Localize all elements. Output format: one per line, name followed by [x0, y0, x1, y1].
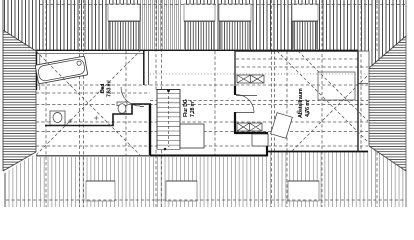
wall top outer [36, 49, 358, 51]
dashed vertical x274.5 [274, 51, 276, 151]
dash-dot axis line y74 [150, 73, 368, 75]
fest wall east [357, 52, 359, 152]
WC [50, 111, 65, 125]
dashed line y93 [36, 92, 150, 94]
roof plane west hip (left horizontal hatch) [3, 30, 36, 171]
dashed vertical x322 [321, 0, 323, 207]
bath door arc [121, 87, 140, 106]
small rect below knee wall [252, 134, 268, 146]
dashed vertical x156 bottom [155, 150, 157, 207]
floor edge right (abseite) [368, 51, 370, 146]
dashed vertical x361 [360, 0, 362, 151]
walking line start dot [167, 89, 170, 92]
hip line bottom-left [3, 152, 36, 171]
svg-text:Bad: Bad [100, 84, 106, 93]
dashed line y100.5 [150, 100, 368, 102]
fest door leaf [236, 112, 254, 114]
svg-text:7,63 m²: 7,63 m² [107, 80, 113, 97]
dashed hip X right arm1a [298, 51, 368, 121]
stair treads [157, 93, 180, 149]
label Abstellraum [298, 88, 311, 118]
eave edge left [2, 0, 4, 171]
wall fest west lower [234, 112, 236, 133]
wall bath right [143, 50, 145, 85]
dashed hip X left arm2 [36, 51, 140, 155]
dashed vertical x79.5 [79, 0, 81, 207]
ledge line top right [358, 50, 369, 52]
dashed line y67 [236, 66, 368, 68]
stair newel dot [164, 148, 167, 151]
stair [157, 89, 181, 150]
dashed vertical x271.5 [271, 0, 273, 207]
roof plane south (bottom vertical hatch band) [5, 147, 406, 208]
stairwell dense hatch strip [141, 0, 181, 50]
dashed ridge line y104.5 [36, 104, 368, 106]
dashed vertical x83.5 [83, 0, 85, 207]
hip line bottom-right [369, 146, 406, 171]
skylight R4 [292, 4, 318, 49]
crossed box row1 [237, 75, 264, 83]
dashed hip X right arm1b [277, 51, 368, 142]
skylight R3 [219, 4, 251, 49]
skylight B2 [166, 181, 197, 201]
skylight B1 [86, 181, 115, 201]
dashed vertical x287 [286, 51, 288, 207]
fest door lintel line [236, 95, 257, 97]
dashed line y85 [36, 84, 368, 86]
landing rect [180, 124, 204, 148]
knee wall stepped (bath south) [45, 104, 151, 126]
roof plane north (top vertical hatch band) [3, 0, 406, 68]
eave edge bottom-left [4, 173, 6, 207]
roof shaft hatch under skylight R2 [183, 20, 215, 50]
floor edge left [35, 51, 37, 152]
purlin line right [358, 83, 368, 85]
dashed vertical x377 [376, 0, 378, 207]
dashed vertical x126 [125, 51, 127, 155]
hip line top-right [369, 36, 406, 68]
dashed hip X left arm1 [36, 51, 140, 155]
stair walking line [168, 91, 170, 147]
skylight R1 [108, 4, 140, 49]
roof shaft hatch under skylight R3 [219, 20, 251, 50]
skylight B3 [288, 181, 319, 201]
svg-text:4,76 m²: 4,76 m² [304, 99, 311, 117]
svg-text:Flur DG: Flur DG [183, 99, 189, 117]
tilted furniture [271, 113, 293, 139]
label Bad [100, 80, 113, 97]
dashed vertical x161.5 bottom [161, 150, 163, 207]
roof shaft hatch under skylight R1 [108, 20, 140, 50]
dashed eave line top [40, 4, 406, 6]
dashed vertical x215 [214, 51, 216, 155]
wall top inner line bath [36, 53, 144, 55]
dashed line y146 [36, 145, 368, 147]
roof plane east hip (right horizontal hatch) [369, 36, 406, 171]
wall step bottom middle [234, 133, 267, 156]
skylight R2 [184, 4, 215, 49]
wall bath left [36, 51, 38, 90]
furniture rect fest [318, 72, 355, 100]
svg-text:Abstellraum: Abstellraum [298, 88, 304, 118]
dashed line y131.5 [36, 131, 368, 133]
crossed box row2 [237, 123, 262, 131]
eave edge right [405, 0, 407, 207]
wall bottom main mid [150, 154, 268, 156]
wall bottom main left [36, 155, 150, 157]
wall top fest thicker [235, 50, 358, 52]
fest door arc [236, 95, 254, 113]
dashed vertical x156 top [155, 0, 157, 90]
bath door leaf [140, 106, 144, 108]
dashed line y122 [36, 121, 368, 123]
dashed vertical x161.5 top [161, 0, 163, 90]
wall bottom right [267, 151, 368, 153]
wall fest west upper [234, 51, 236, 86]
roof shaft hatch under skylight R4 [292, 20, 318, 50]
plus mark [68, 116, 99, 124]
dashed line y59 [236, 58, 358, 60]
dashed vertical x46 [45, 0, 47, 207]
wall flur west [149, 104, 151, 155]
washbasin [117, 102, 127, 113]
small fixture symbols [296, 110, 310, 115]
label Flur DG [183, 99, 196, 117]
hip line top-left [3, 30, 36, 51]
dashed hip X right arm2 [292, 75, 368, 151]
svg-text:7,28 m²: 7,28 m² [190, 100, 196, 117]
dashed line bottom y200 [6, 199, 406, 201]
bathtub [35, 56, 88, 84]
